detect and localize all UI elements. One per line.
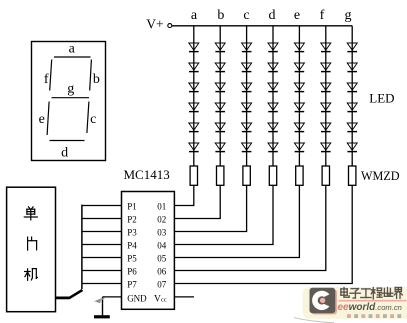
resistor R7 (WMZD, column g) — [349, 166, 356, 185]
wire thick diagonal to bus — [69, 290, 82, 298]
svg-text:b: b — [217, 8, 224, 23]
wire output 02 to column b — [174, 185, 220, 218]
LED D56 (column e, diode 6) — [294, 143, 304, 152]
LED D44 (column d, diode 4) — [268, 103, 278, 112]
svg-text:04: 04 — [157, 241, 167, 251]
svg-text:b: b — [93, 72, 100, 87]
svg-text:a: a — [191, 8, 198, 23]
gray junction arrow marker — [94, 298, 101, 303]
resistor R5 (WMZD, column e) — [296, 166, 303, 185]
MCU label char 单 — [24, 207, 37, 220]
wire output 06 to column f — [174, 185, 325, 270]
svg-text:P2: P2 — [127, 215, 137, 225]
wire V+ top bus — [172, 25, 352, 27]
watermark salmon underline — [339, 300, 407, 302]
watermark background strip — [303, 287, 407, 319]
wire P3 (bus to IC) — [82, 231, 122, 233]
wire P4 (bus to IC) — [82, 244, 122, 246]
segment b — [90, 60, 92, 91]
LED D12 (column a, diode 2) — [189, 63, 199, 72]
watermark char 世 — [382, 288, 393, 297]
svg-text:g: g — [67, 82, 74, 97]
svg-text:03: 03 — [157, 228, 167, 238]
svg-text:c: c — [90, 112, 96, 127]
wire column a vertical (bus to resistor) — [193, 26, 195, 166]
LED D31 (column c, diode 1) — [242, 43, 252, 52]
svg-text:d: d — [61, 145, 68, 160]
wire output 04 to column d — [174, 185, 273, 244]
wire P6 (bus to IC) — [82, 270, 122, 272]
wire column d vertical (bus to resistor) — [272, 26, 274, 166]
segment g — [52, 97, 90, 99]
LED D65 (column f, diode 5) — [321, 123, 331, 132]
LED D62 (column f, diode 2) — [321, 63, 331, 72]
segment f — [50, 60, 52, 91]
resistor R4 (WMZD, column d) — [269, 166, 276, 185]
svg-text:GND: GND — [127, 293, 147, 303]
wire output 07 to column g — [174, 185, 352, 283]
svg-text:MC1413: MC1413 — [124, 167, 170, 182]
watermark char 工 — [361, 289, 371, 298]
watermark logo dot — [320, 298, 325, 303]
watermark char 电 — [341, 288, 349, 298]
resistor R3 (WMZD, column c) — [243, 166, 250, 185]
svg-text:P6: P6 — [127, 267, 137, 277]
MCU label char 片 — [28, 237, 37, 250]
wire P1 (bus to IC) — [82, 205, 122, 207]
wire output 01 to column a — [174, 185, 193, 205]
LED D21 (column b, diode 1) — [215, 43, 225, 52]
IC U1 MC1413 box — [122, 192, 175, 310]
MCU box (single-chip microcomputer) — [7, 187, 56, 312]
LED D55 (column e, diode 5) — [294, 123, 304, 132]
watermark logo shadow — [312, 290, 338, 315]
LED D16 (column a, diode 6) — [189, 143, 199, 152]
LED D26 (column b, diode 6) — [215, 143, 225, 152]
svg-text:P1: P1 — [127, 202, 137, 212]
LED D33 (column c, diode 3) — [242, 83, 252, 92]
LED D22 (column b, diode 2) — [215, 63, 225, 72]
LED D71 (column g, diode 1) — [347, 43, 357, 52]
LED D35 (column c, diode 5) — [242, 123, 252, 132]
svg-text:P4: P4 — [127, 241, 137, 251]
LED D74 (column g, diode 4) — [347, 103, 357, 112]
svg-text:e: e — [294, 8, 300, 23]
wire output 05 to column e — [174, 185, 299, 257]
LED D42 (column d, diode 2) — [268, 63, 278, 72]
svg-text:c: c — [243, 8, 249, 23]
resistor R2 (WMZD, column b) — [217, 166, 224, 185]
wire column g vertical (bus to resistor) — [351, 26, 353, 166]
LED D13 (column a, diode 3) — [189, 83, 199, 92]
LED D64 (column f, diode 4) — [321, 103, 331, 112]
LED D41 (column d, diode 1) — [268, 43, 278, 52]
LED D73 (column g, diode 3) — [347, 83, 357, 92]
svg-text:e: e — [39, 112, 45, 127]
watermark swoosh edge — [294, 318, 334, 323]
svg-text:LED: LED — [369, 91, 394, 106]
LED D34 (column c, diode 4) — [242, 103, 252, 112]
LED D25 (column b, diode 5) — [215, 123, 225, 132]
LED D75 (column g, diode 5) — [347, 123, 357, 132]
LED D15 (column a, diode 5) — [189, 123, 199, 132]
LED D54 (column e, diode 4) — [294, 103, 304, 112]
LED D63 (column f, diode 3) — [321, 83, 331, 92]
watermark char 界 — [394, 288, 402, 299]
svg-text:07: 07 — [157, 280, 167, 290]
svg-text:06: 06 — [157, 267, 167, 277]
LED D36 (column c, diode 6) — [242, 143, 252, 152]
resistor R1 (WMZD, column a) — [190, 166, 197, 185]
wire P2 (bus to IC) — [82, 218, 122, 220]
seven-segment display box — [32, 42, 106, 161]
svg-text:Vcc: Vcc — [154, 294, 167, 304]
segment a — [54, 56, 91, 58]
watermark char 程 — [371, 288, 382, 299]
svg-text:P7: P7 — [127, 280, 137, 290]
svg-text:a: a — [69, 41, 76, 56]
svg-text:02: 02 — [157, 215, 166, 225]
segment e — [47, 102, 49, 136]
ground symbol bar — [94, 315, 110, 318]
segment d — [50, 140, 85, 142]
wire GND (IC to ground) — [103, 296, 122, 298]
LED D46 (column d, diode 6) — [268, 143, 278, 152]
watermark logo C crescent — [312, 291, 329, 310]
LED D11 (column a, diode 1) — [189, 43, 199, 52]
svg-text:05: 05 — [157, 254, 167, 264]
wire column e vertical (bus to resistor) — [298, 26, 300, 166]
ground symbol stem — [102, 297, 104, 316]
LED D32 (column c, diode 2) — [242, 63, 252, 72]
svg-text:01: 01 — [157, 202, 166, 212]
LED D45 (column d, diode 5) — [268, 123, 278, 132]
watermark tiny slogan marks — [347, 314, 401, 318]
LED D51 (column e, diode 1) — [294, 43, 304, 52]
svg-text:P3: P3 — [127, 228, 137, 238]
MCU label char 机 — [25, 269, 38, 281]
LED D23 (column b, diode 3) — [215, 83, 225, 92]
LED D52 (column e, diode 2) — [294, 63, 304, 72]
V+ terminal circle — [168, 24, 172, 28]
wire column f vertical (bus to resistor) — [325, 26, 327, 166]
svg-text:V+: V+ — [146, 17, 163, 32]
svg-text:WMZD: WMZD — [361, 169, 400, 183]
watermark logo square — [310, 288, 336, 313]
LED D14 (column a, diode 4) — [189, 103, 199, 112]
wire P5 (bus to IC) — [82, 257, 122, 259]
LED D43 (column d, diode 3) — [268, 83, 278, 92]
wire Vcc stub — [174, 296, 194, 298]
segment c — [87, 102, 89, 134]
svg-text:f: f — [320, 8, 325, 23]
LED D24 (column b, diode 4) — [215, 103, 225, 112]
resistor R6 (WMZD, column f) — [322, 166, 329, 185]
LED D72 (column g, diode 2) — [347, 63, 357, 72]
LED D61 (column f, diode 1) — [321, 43, 331, 52]
wire P7 (bus to IC) — [82, 283, 122, 285]
svg-text:f: f — [44, 72, 49, 87]
wire thick stub from MCU box — [56, 296, 70, 299]
svg-text:eeworld.com.cn: eeworld.com.cn — [338, 302, 402, 313]
wire column b vertical (bus to resistor) — [219, 26, 221, 166]
watermark char 子 — [350, 289, 360, 298]
svg-text:P5: P5 — [127, 254, 137, 264]
wire column c vertical (bus to resistor) — [246, 26, 248, 166]
svg-text:d: d — [269, 8, 276, 23]
wire output 03 to column c — [174, 185, 246, 231]
LED D66 (column f, diode 6) — [321, 143, 331, 152]
wire left bus vertical — [81, 205, 83, 289]
LED D76 (column g, diode 6) — [347, 143, 357, 152]
svg-text:g: g — [345, 8, 352, 23]
LED D53 (column e, diode 3) — [294, 83, 304, 92]
